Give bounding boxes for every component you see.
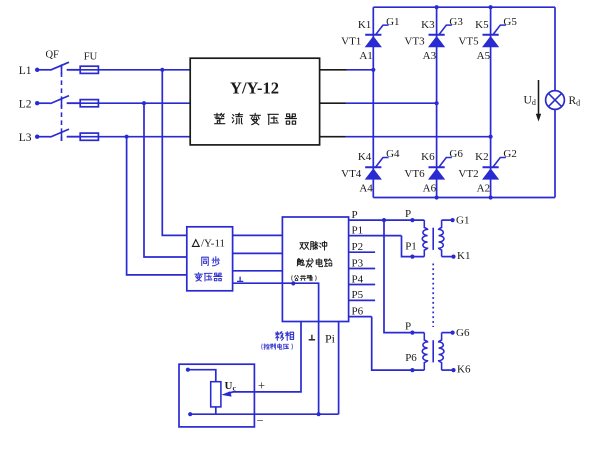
junction L2 tap: [142, 101, 146, 105]
wire output P6: [349, 316, 372, 318]
svg-text:G4: G4: [386, 148, 400, 160]
terminal G6: [451, 331, 455, 335]
junction top bus leg2: [435, 5, 439, 9]
svg-text:VT5: VT5: [458, 36, 479, 48]
svg-text:VT4: VT4: [341, 168, 362, 180]
fuse FU2: [80, 100, 98, 107]
wire bridge leg x=490: [490, 7, 492, 197]
svg-text:L3: L3: [19, 132, 32, 144]
breaker QF pole 1: [35, 62, 80, 74]
thyristor VT2: [483, 158, 506, 180]
wire output P4: [349, 284, 376, 286]
label 触发电路: [297, 259, 304, 266]
junction top bus leg3: [489, 5, 493, 9]
wire control voltage + to trigger box: [227, 322, 302, 394]
svg-text:G1: G1: [456, 215, 469, 227]
svg-text:G3: G3: [449, 16, 463, 28]
svg-text:VT3: VT3: [404, 36, 425, 48]
sync transformer box T2: [187, 227, 233, 291]
svg-text:P5: P5: [352, 289, 364, 301]
terminal pot bottom: [188, 412, 192, 416]
svg-text:K1: K1: [358, 19, 371, 31]
svg-text:G2: G2: [503, 148, 516, 160]
rectifier transformer box T1 Y/Y-12: [190, 58, 319, 145]
wire L1 to transformer: [98, 69, 190, 71]
wire L2 tap to sync transformer: [144, 103, 187, 257]
control voltage source box Uc: [179, 364, 254, 427]
label （公共端）: [291, 275, 294, 280]
wire output P: [349, 219, 425, 221]
label （控制电压）: [261, 344, 264, 350]
wire output P1: [349, 235, 402, 237]
junction L1 tap: [160, 68, 164, 72]
pulse transformer T3 core: [432, 228, 434, 250]
wire load branch bottom: [554, 109, 556, 197]
svg-text:K6: K6: [457, 363, 471, 375]
pulse transformer T4 primary winding: [422, 333, 427, 371]
lamp load Rd: [546, 91, 565, 110]
svg-text:−: −: [256, 413, 263, 427]
wire secondary to K6: [442, 369, 454, 371]
junction P bus: [382, 218, 386, 222]
svg-text:+: +: [258, 379, 265, 393]
wire top bus: [373, 6, 555, 8]
svg-text:G5: G5: [503, 16, 517, 28]
svg-text:A6: A6: [423, 182, 437, 194]
wire transformer secondary b (black): [320, 102, 346, 104]
thyristor VT3: [429, 25, 452, 47]
pulse transformer T3 primary winding: [422, 220, 427, 257]
ground symbol below trigger box: [309, 335, 315, 340]
svg-text:P3: P3: [352, 257, 364, 269]
wire L1 tap to sync transformer: [162, 70, 187, 236]
breaker QF pole 2: [35, 96, 80, 108]
label 变压器: [195, 273, 203, 281]
dotted line between pulse transformers: [432, 264, 434, 328]
terminal K1: [451, 255, 455, 259]
junction common terminal dot: [291, 281, 295, 285]
junction bottom bus leg2: [435, 195, 439, 199]
wire bottom bus: [373, 197, 555, 199]
wire P1 to T3 primary: [402, 236, 425, 257]
breaker QF pole 3: [35, 129, 80, 141]
svg-text:VT2: VT2: [458, 168, 478, 180]
terminal P at T3: [410, 218, 414, 222]
wire secondary to G6: [442, 332, 453, 334]
svg-text:G6: G6: [456, 327, 470, 339]
svg-text:P4: P4: [352, 273, 364, 285]
svg-text:P1: P1: [405, 241, 417, 253]
wire pot top: [188, 370, 216, 382]
junction minus line: [317, 412, 321, 416]
svg-text:P: P: [405, 208, 411, 220]
pulse transformer T4 core: [432, 340, 434, 362]
label 同步: [202, 257, 209, 265]
wire transformer secondary b (blue) to leg2: [346, 102, 437, 104]
arrow Ud: [538, 80, 540, 118]
svg-text:P: P: [352, 209, 358, 221]
svg-text:QF: QF: [45, 50, 59, 61]
svg-text:K2: K2: [475, 151, 488, 163]
wire output P3: [349, 268, 376, 270]
wire L2 to transformer: [98, 102, 190, 104]
svg-text:A5: A5: [477, 50, 491, 62]
junction L3 tap: [125, 135, 129, 139]
svg-text:A4: A4: [359, 182, 373, 194]
svg-text:/Y-11: /Y-11: [201, 238, 225, 250]
wire Pi to minus line: [338, 322, 340, 415]
terminal P1 at T3: [410, 255, 414, 259]
label 整流变压器: [214, 113, 225, 123]
svg-text:Pi: Pi: [325, 332, 336, 346]
svg-text:L1: L1: [19, 65, 32, 77]
wire sync out 2: [233, 252, 283, 254]
svg-text:K6: K6: [421, 151, 435, 163]
thyristor VT1: [365, 25, 388, 47]
thyristor VT4: [365, 158, 388, 180]
wire transformer secondary a (black): [320, 69, 347, 71]
wire output P2: [349, 251, 376, 253]
wire bridge leg x=373: [372, 7, 374, 197]
terminal P at T4: [410, 331, 414, 335]
junction leg2 phase b: [435, 101, 439, 105]
fuse FU3: [80, 133, 98, 140]
svg-text:FU: FU: [84, 51, 98, 62]
wire sync common to minus line: [233, 283, 319, 414]
wire secondary to G1: [442, 219, 453, 221]
svg-text:VT6: VT6: [404, 168, 425, 180]
wire sync out 1: [233, 234, 283, 236]
svg-text:L2: L2: [19, 98, 32, 110]
wire L3 tap to sync transformer: [127, 137, 187, 275]
svg-text:K3: K3: [421, 19, 435, 31]
junction leg3 phase c: [489, 135, 493, 139]
wire P6 to T4 primary: [372, 317, 425, 371]
svg-text:Y/Y-12: Y/Y-12: [230, 78, 279, 97]
junction leg1 phase a: [371, 68, 375, 72]
pulse transformer T4 secondary winding: [439, 333, 444, 371]
wire L2 to fuse: [67, 102, 80, 104]
wire L3 to transformer: [98, 136, 190, 138]
svg-text:K1: K1: [457, 250, 470, 262]
trigger circuit box U1: [282, 217, 348, 322]
fuse FU1: [80, 66, 98, 73]
wire secondary to K1: [442, 256, 454, 258]
wire P bus down to T6: [384, 220, 424, 333]
ground symbol at sync output 4: [237, 277, 243, 282]
svg-text:P6: P6: [352, 305, 364, 317]
thyristor VT5: [483, 25, 506, 47]
svg-text:A3: A3: [423, 50, 437, 62]
svg-text:P1: P1: [352, 224, 364, 236]
thyristor VT6: [429, 158, 452, 180]
breaker QF linkage dashed: [61, 64, 63, 141]
svg-text:P6: P6: [405, 352, 417, 364]
arrowhead wiper: [221, 391, 231, 396]
svg-text:A2: A2: [477, 182, 490, 194]
wire minus line: [190, 413, 338, 415]
terminal K6: [451, 368, 455, 372]
wire L1 to fuse: [67, 69, 80, 71]
wire transformer secondary a (blue) to leg1: [347, 69, 374, 71]
svg-text:K5: K5: [475, 19, 489, 31]
wire transformer secondary c (black): [320, 136, 346, 138]
wire sync out 3: [233, 270, 283, 272]
svg-text:K4: K4: [358, 151, 372, 163]
svg-text:G1: G1: [386, 16, 399, 28]
svg-text:P: P: [405, 321, 411, 333]
svg-text:VT1: VT1: [341, 36, 361, 48]
svg-text:G6: G6: [449, 148, 463, 160]
junction bottom bus leg3: [489, 195, 493, 199]
pulse transformer T3 secondary winding: [439, 220, 444, 257]
wire bridge leg x=436: [436, 7, 438, 197]
terminal pot top: [186, 368, 190, 372]
svg-text:P2: P2: [352, 241, 364, 253]
wire output P5: [349, 299, 376, 301]
potentiometer RP: [211, 382, 221, 407]
label triangle/Y-11: [192, 240, 199, 247]
wire pot bottom: [215, 407, 217, 414]
label 移相: [275, 332, 283, 341]
wire transformer secondary c (blue) to leg3: [346, 136, 491, 138]
wire load branch top: [554, 7, 556, 90]
label 双脉冲: [300, 243, 309, 250]
svg-text:A1: A1: [359, 50, 372, 62]
terminal P6 at T4: [410, 368, 414, 372]
terminal G1: [451, 218, 455, 222]
wire L3 to fuse: [67, 136, 80, 138]
